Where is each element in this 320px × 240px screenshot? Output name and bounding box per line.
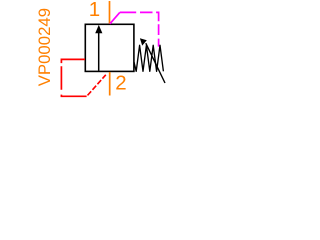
drain line diagonal (red dashed) (88, 75, 106, 96)
svg-text:1: 1 (89, 0, 100, 21)
pilot line (magenta dashed) (120, 12, 159, 46)
flow path arrow shaft (98, 33, 100, 71)
svg-text:2: 2 (115, 71, 126, 94)
flow path arrowhead (95, 25, 102, 33)
svg-text:VP000249: VP000249 (35, 8, 54, 86)
adjustment arrowhead (140, 38, 147, 45)
port 2 line (109, 72, 111, 96)
spring (134, 45, 163, 71)
adjustment arrow shaft (146, 43, 165, 83)
port 1 line (109, 1, 111, 24)
valve body square (85, 24, 134, 71)
drain line loop (red dashed) (61, 59, 86, 96)
pilot line diagonal (magenta) (110, 12, 120, 23)
